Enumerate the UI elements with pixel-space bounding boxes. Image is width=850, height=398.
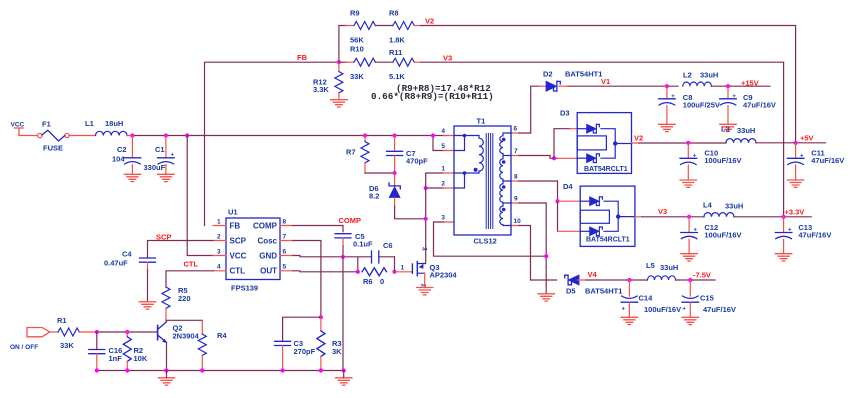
transformer T1 pin stubs left: [444, 136, 455, 223]
wire FB node up to R9 row: [339, 26, 346, 63]
transistor Q3 AP2304: [412, 247, 457, 288]
svg-text:33K: 33K: [60, 341, 74, 350]
ground under C2: [124, 174, 140, 181]
svg-text:COMP: COMP: [253, 222, 278, 231]
svg-text:BAT54RCLT1: BAT54RCLT1: [584, 166, 628, 173]
node junction row end: [342, 368, 346, 372]
svg-text:3: 3: [421, 247, 428, 251]
svg-text:0.47uF: 0.47uF: [104, 259, 128, 268]
svg-text:47uF/16V: 47uF/16V: [703, 305, 736, 314]
ground under Q2: [158, 378, 174, 385]
capacitor C8 100uF/25V: [659, 86, 720, 124]
resistor R7: [346, 136, 369, 174]
svg-text:1: 1: [441, 166, 445, 173]
wire GND pin row to C6 branch: [293, 256, 395, 272]
ground under Q3: [417, 288, 433, 295]
node junction C9: [726, 84, 730, 88]
svg-text:D2: D2: [543, 70, 553, 79]
ground under C8: [659, 124, 675, 131]
svg-text:18uH: 18uH: [105, 119, 123, 128]
wire C6 right down to R6 right: [394, 257, 396, 272]
svg-text:4: 4: [217, 264, 221, 271]
svg-text:OUT: OUT: [260, 267, 277, 276]
wire V4 row: [586, 279, 648, 281]
svg-text:+: +: [682, 307, 686, 313]
svg-text:56K: 56K: [350, 36, 364, 45]
capacitor C16 1nF: [89, 332, 122, 371]
capacitor C1 330uF: [144, 136, 175, 175]
svg-text:10: 10: [514, 218, 522, 225]
wire L2 to +15V: [711, 85, 770, 87]
resistor R8 1.8K: [389, 9, 421, 45]
ground under C15: [682, 317, 698, 324]
svg-text:+: +: [171, 152, 175, 158]
svg-text:C6: C6: [383, 241, 393, 250]
resistor R12 3.3K: [313, 62, 343, 99]
svg-text:R6: R6: [363, 277, 373, 286]
capacitor C15 47uF/16V: [682, 280, 736, 317]
svg-text:8: 8: [514, 174, 518, 181]
node junction C16 bottom: [95, 368, 99, 372]
svg-text:C1: C1: [155, 145, 165, 154]
svg-text:R10: R10: [350, 45, 364, 54]
node junction FB divider: [337, 60, 341, 64]
node junction C11: [794, 141, 798, 145]
ground T1 secondary: [538, 294, 554, 301]
svg-text:33uH: 33uH: [700, 71, 718, 80]
svg-text:0: 0: [380, 277, 384, 286]
node junction D3 input: [552, 156, 556, 160]
svg-text:R7: R7: [346, 148, 356, 157]
diode block D3 BAT54RCLT1: [560, 109, 632, 174]
node junction R4 bottom: [200, 368, 204, 372]
svg-text:4: 4: [441, 128, 445, 135]
resistor R9 56K: [346, 9, 375, 45]
svg-text:10K: 10K: [134, 354, 148, 363]
svg-text:33uH: 33uH: [725, 202, 743, 211]
wire C4 to ground: [147, 270, 149, 302]
node junction rail pin5 branch: [431, 133, 435, 137]
svg-text:+: +: [693, 153, 697, 159]
svg-text:+: +: [788, 228, 792, 234]
wire D3 top input: [554, 129, 570, 159]
inductor L5 33uH: [646, 261, 678, 280]
node junction C16 top: [95, 330, 99, 334]
capacitor C4 0.47uF: [104, 250, 156, 271]
port ON/OFF: [10, 328, 50, 352]
svg-text:D3: D3: [560, 109, 570, 118]
resistor R3 3K: [317, 317, 342, 370]
svg-text:3K: 3K: [332, 347, 342, 356]
fuse F1: [38, 120, 70, 153]
diode D2 BAT54HT1: [539, 70, 602, 92]
diode D5 BAT54HT1: [565, 275, 623, 296]
node junction snubber bottom: [393, 171, 397, 175]
wire Cosc to R3: [293, 241, 321, 318]
svg-text:FUSE: FUSE: [43, 144, 63, 153]
diode block D4 BAT54RCLT1: [563, 182, 635, 246]
svg-text:0.1uF: 0.1uF: [353, 240, 373, 249]
wire gate to Q3: [395, 271, 413, 273]
wire ON/OFF row: [97, 331, 158, 333]
transformer T1 CLS12: [454, 117, 511, 246]
svg-text:6: 6: [514, 126, 518, 133]
svg-text:+15V: +15V: [741, 79, 759, 88]
wire R10 to R11: [375, 61, 393, 63]
capacitor C11 47uF/16V: [787, 143, 844, 180]
svg-text:C4: C4: [122, 250, 132, 259]
svg-text:104: 104: [112, 155, 125, 164]
power port VCC: [11, 122, 25, 136]
svg-text:R1: R1: [57, 316, 67, 325]
ground under C9: [720, 124, 736, 131]
node junction pin1 pin2: [424, 186, 428, 190]
svg-text:+3.3V: +3.3V: [785, 207, 805, 216]
wire L1 to C2: [127, 135, 132, 137]
svg-text:33uH: 33uH: [737, 126, 755, 135]
diode D6 8.2 zener: [369, 173, 400, 206]
svg-text:V2: V2: [425, 17, 434, 26]
svg-text:2N3904: 2N3904: [173, 332, 200, 341]
svg-text:1.8K: 1.8K: [389, 36, 405, 45]
inductor L3 33uH: [721, 125, 756, 143]
svg-text:5.1K: 5.1K: [389, 72, 405, 81]
wire V3 row: [635, 216, 642, 218]
svg-text:L4: L4: [703, 201, 713, 210]
wire COMP to C5: [293, 226, 343, 232]
svg-text:33K: 33K: [350, 72, 364, 81]
node junction C8: [665, 84, 669, 88]
wire Q2 collector node to R4: [167, 320, 203, 322]
ground under C10: [680, 180, 696, 187]
node junction ground net: [544, 254, 548, 258]
wire OUT pin to R6: [293, 271, 358, 272]
wire L3 to +5V: [756, 142, 826, 144]
svg-text:D4: D4: [563, 182, 573, 191]
svg-text:L5: L5: [646, 261, 655, 270]
op-amp U1 FPS139: [226, 208, 280, 293]
svg-text:V1: V1: [601, 77, 610, 86]
svg-text:COMP: COMP: [339, 216, 362, 225]
svg-text:1: 1: [217, 219, 221, 226]
resistor R2 10K: [123, 332, 148, 371]
capacitor C3 270pF: [275, 339, 316, 371]
svg-text:V3: V3: [658, 207, 667, 216]
wire Q3 source to ground: [424, 273, 426, 287]
svg-text:+: +: [800, 153, 804, 159]
svg-text:3: 3: [441, 215, 445, 222]
resistor R5 220: [162, 286, 191, 320]
svg-text:9: 9: [514, 196, 518, 203]
wire T1 pin3 to ground: [434, 222, 547, 256]
svg-text:0.66*(R8+R9)=(R10+R11): 0.66*(R8+R9)=(R10+R11): [371, 91, 494, 102]
svg-text:T1: T1: [477, 117, 486, 126]
wire R3 node to C3: [283, 317, 321, 341]
wire VCC rail to U1 pin3: [187, 136, 213, 256]
svg-text:C14: C14: [639, 294, 654, 303]
svg-text:GND: GND: [259, 252, 277, 261]
svg-text:100uF/16V: 100uF/16V: [644, 305, 681, 314]
wire FB net from U1 pin1 up and right: [205, 62, 339, 225]
wire V2 feedback line to +5V rail: [421, 26, 796, 143]
node junction Q2 emitter: [164, 368, 168, 372]
capacitor C12 100uF/16V: [681, 217, 742, 254]
node junction R2 top: [125, 330, 129, 334]
svg-text:V2: V2: [634, 134, 643, 143]
capacitor C13 47uF/16V: [775, 217, 831, 254]
svg-text:BAT54HT1: BAT54HT1: [585, 287, 622, 296]
wire bottom ground row: [97, 370, 344, 372]
wire primary node down to Q3 drain: [425, 188, 426, 264]
svg-text:100uF/16V: 100uF/16V: [704, 156, 741, 165]
node junction C5 bottom: [341, 255, 345, 259]
node junction C3 bottom: [281, 368, 285, 372]
svg-text:BAT54RCLT1: BAT54RCLT1: [586, 237, 630, 244]
wire rail branch to T1 pin5: [433, 136, 444, 151]
capacitor C10 100uF/16V: [680, 143, 742, 180]
node junction D4 input: [555, 199, 559, 203]
node junction C13: [782, 215, 786, 219]
node junction C1: [164, 133, 168, 137]
wire VCC to F1: [19, 135, 38, 137]
svg-text:F1: F1: [42, 120, 51, 129]
node junction C7 top: [393, 133, 397, 137]
node junction C2: [130, 133, 134, 137]
svg-text:7: 7: [283, 234, 287, 241]
resistor R6 0: [362, 268, 387, 286]
svg-text:6: 6: [283, 249, 287, 256]
wire T1 pin8 to D4: [519, 181, 558, 201]
wire Q2 emitter down: [166, 343, 168, 371]
svg-text:7: 7: [514, 148, 518, 155]
capacitor C5 0.1uF: [335, 232, 373, 257]
resistor R1 33K: [50, 316, 97, 350]
svg-text:5: 5: [441, 143, 445, 150]
node junction C10: [686, 141, 690, 145]
svg-text:470pF: 470pF: [406, 157, 428, 166]
wire V1 row: [568, 85, 678, 87]
svg-text:CTL: CTL: [230, 267, 246, 276]
svg-text:5: 5: [283, 264, 287, 271]
inductor L4 33uH: [703, 201, 743, 217]
node junction R3 top: [319, 315, 323, 319]
node junction R6 left: [356, 270, 360, 274]
node junction R3 bottom: [319, 368, 323, 372]
wire main VCC rail: [132, 135, 443, 137]
ground under C14: [621, 317, 637, 324]
resistor R4: [198, 320, 227, 370]
wire D6 to primary return row: [395, 206, 426, 219]
wire C5 node down to ground row: [342, 257, 344, 371]
svg-text:+: +: [671, 94, 675, 100]
svg-text:100uF/16V: 100uF/16V: [704, 231, 741, 240]
wire R9 to R8: [375, 25, 393, 27]
capacitor C6: [372, 241, 393, 263]
svg-text:CTL: CTL: [184, 260, 199, 269]
svg-text:C2: C2: [117, 145, 127, 154]
wire T1 pin1 pin2 join: [426, 173, 444, 188]
node junction C12: [687, 215, 691, 219]
svg-text:V3: V3: [443, 54, 452, 63]
inductor L2 33uH: [683, 71, 719, 87]
svg-text:330uF: 330uF: [144, 163, 166, 172]
wire R7 bottom to C7 bottom: [365, 172, 395, 174]
svg-text:47uF/16V: 47uF/16V: [798, 231, 831, 240]
svg-text:V4: V4: [588, 270, 598, 279]
svg-text:8.2: 8.2: [369, 192, 379, 201]
wire D4 bottom input: [557, 201, 559, 231]
node junction C15: [688, 278, 692, 282]
svg-text:FB: FB: [297, 53, 308, 62]
wire V2 row: [632, 142, 640, 144]
svg-text:ON / OFF: ON / OFF: [10, 344, 38, 351]
svg-text:VCC: VCC: [230, 252, 247, 261]
svg-text:BAT54HT1: BAT54HT1: [565, 70, 602, 79]
wire L5 to -7.5V: [676, 279, 716, 281]
svg-text:47uF/16V: 47uF/16V: [743, 101, 776, 110]
wire SCP to C4: [148, 241, 214, 259]
capacitor C9 47uF/16V: [720, 86, 776, 124]
capacitor C2 104: [112, 136, 141, 175]
svg-text:2: 2: [217, 234, 221, 241]
node junction D6 row: [424, 217, 428, 221]
node junction C14: [627, 278, 631, 282]
svg-text:C15: C15: [700, 294, 714, 303]
transistor Q2 2N3904: [158, 322, 200, 343]
svg-text:AP2304: AP2304: [430, 271, 458, 280]
svg-text:100uF/25V: 100uF/25V: [683, 101, 720, 110]
ground under C12: [681, 254, 697, 261]
capacitor C14 100uF/16V: [621, 280, 681, 317]
wire V3 feedback line to +3.3V rail: [421, 62, 784, 217]
svg-text:1nF: 1nF: [109, 354, 123, 363]
svg-text:+5V: +5V: [800, 133, 814, 142]
wire L4 to +3.3V: [734, 216, 811, 218]
svg-text:R11: R11: [389, 48, 402, 57]
svg-text:+: +: [622, 307, 626, 313]
svg-text:R4: R4: [217, 331, 227, 340]
svg-text:CLS12: CLS12: [474, 237, 497, 246]
svg-text:220: 220: [178, 294, 191, 303]
svg-text:R8: R8: [389, 9, 399, 18]
svg-text:U1: U1: [228, 208, 238, 217]
resistor R11 5.1K: [389, 48, 421, 81]
svg-text:SCP: SCP: [230, 237, 247, 246]
node junction R6 right: [392, 270, 396, 274]
svg-text:2: 2: [441, 181, 445, 188]
wire T1 pin10 to D5: [519, 226, 557, 281]
svg-text:33uH: 33uH: [660, 263, 678, 272]
node junction R7 top: [363, 133, 367, 137]
svg-text:Cosc: Cosc: [257, 237, 277, 246]
svg-text:-7.5V: -7.5V: [693, 271, 711, 280]
svg-text:L1: L1: [85, 119, 94, 128]
resistor R10 33K: [346, 45, 375, 82]
svg-text:FB: FB: [230, 222, 241, 231]
svg-text:8: 8: [283, 219, 287, 226]
wire T1 pin6 up to D2: [519, 86, 539, 133]
svg-text:3.3K: 3.3K: [313, 85, 329, 94]
U1 pin stubs: [213, 226, 293, 271]
ground under C11: [787, 180, 803, 187]
node junction R2 bottom: [125, 368, 129, 372]
svg-text:+: +: [732, 94, 736, 100]
svg-text:FPS139: FPS139: [231, 284, 258, 293]
ground under C1: [158, 174, 174, 181]
svg-text:270pF: 270pF: [294, 347, 316, 356]
wire F1 to L1: [69, 135, 95, 137]
svg-text:+: +: [694, 228, 698, 234]
node junction VCC branch to U1: [185, 133, 189, 137]
ground under C4: [139, 302, 155, 309]
inductor L1 18uH: [85, 119, 127, 136]
svg-text:47uF/16V: 47uF/16V: [811, 156, 844, 165]
wire T1 pin9 to ground: [519, 203, 546, 294]
svg-text:D5: D5: [566, 287, 576, 296]
svg-text:1: 1: [401, 265, 405, 272]
wire CTL to R5: [166, 271, 213, 287]
wire FB node to R10: [339, 61, 346, 63]
svg-text:L3: L3: [721, 125, 730, 134]
ground under C13: [775, 254, 791, 261]
svg-text:VCC: VCC: [11, 122, 25, 129]
wire T1 pin7 to D3: [519, 156, 558, 159]
ground under R12: [331, 100, 347, 107]
svg-text:R9: R9: [350, 9, 360, 18]
ground bottom row: [336, 378, 352, 385]
transformer T1 pin stubs right: [511, 133, 519, 226]
svg-text:3: 3: [217, 249, 221, 256]
capacitor C7 470pF: [387, 136, 428, 174]
svg-text:L2: L2: [683, 71, 692, 80]
